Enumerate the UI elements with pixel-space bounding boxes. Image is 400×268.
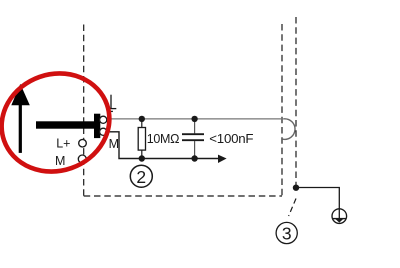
svg-text:10MΩ: 10MΩ [147,132,179,146]
svg-text:3: 3 [282,223,292,243]
svg-text:M: M [109,137,119,151]
svg-text:<100nF: <100nF [209,131,253,146]
svg-text:L+: L+ [56,137,70,151]
svg-text:2: 2 [136,167,146,187]
svg-text:M: M [55,154,65,168]
